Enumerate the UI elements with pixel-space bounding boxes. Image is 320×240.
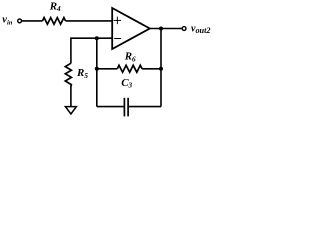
wire bottom left to C3 bbox=[97, 106, 124, 108]
terminal vin bbox=[18, 19, 22, 23]
wire R4 to op-amp + input bbox=[66, 20, 113, 22]
wire corner down to R5 bbox=[70, 37, 72, 63]
node A junction on inverting wire bbox=[95, 36, 99, 40]
terminal vout2 bbox=[182, 27, 186, 31]
ground bbox=[65, 107, 76, 114]
wire op-amp output bbox=[150, 28, 182, 30]
wire R6 to right rail bbox=[142, 68, 161, 70]
wire left rail to R6 bbox=[97, 68, 118, 70]
resistor R5 bbox=[65, 63, 71, 86]
node junction left of R6 bbox=[95, 67, 99, 71]
resistor R4 bbox=[43, 18, 66, 25]
wire C3 to bottom right bbox=[129, 106, 161, 108]
wire right feedback rail bbox=[160, 29, 162, 107]
wire vin to R4 bbox=[22, 20, 43, 22]
node junction right of R6 bbox=[159, 67, 163, 71]
svg-text:vout2: vout2 bbox=[191, 23, 210, 35]
capacitor C3 bbox=[124, 98, 128, 117]
wire left feedback rail bbox=[96, 38, 98, 106]
node output junction bbox=[159, 27, 163, 31]
wire R5 to ground bbox=[70, 86, 72, 107]
op-amp U1 bbox=[112, 8, 150, 49]
resistor R6 bbox=[117, 65, 142, 72]
wire inverting input bbox=[71, 37, 112, 39]
